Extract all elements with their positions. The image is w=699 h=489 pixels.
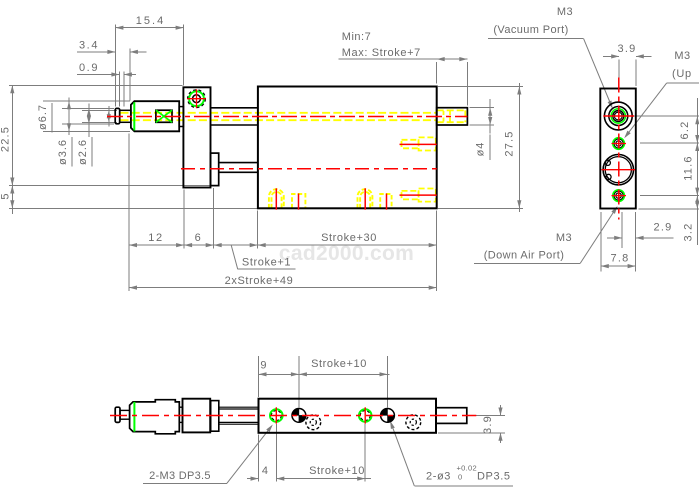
bottom port A inner xyxy=(272,192,282,208)
Stroke+1 leader xyxy=(231,245,238,269)
dim 27.5 line xyxy=(518,83,520,212)
stub hole hidden end xyxy=(464,110,466,122)
bv 3.9 ext top xyxy=(471,415,505,417)
bottom port C outline xyxy=(358,189,373,208)
plate hole crosshair h xyxy=(187,98,206,100)
bv guide rod line 4 xyxy=(219,423,259,425)
dim 6.7 ext top xyxy=(43,100,130,102)
bv 3.9 ext bottom xyxy=(438,432,505,434)
svg-text:2.9: 2.9 xyxy=(654,222,673,234)
svg-text:0.9: 0.9 xyxy=(79,62,99,74)
plate hole green circle xyxy=(189,91,204,106)
bv ext hole2 xyxy=(364,424,366,482)
svg-text:4: 4 xyxy=(262,465,269,477)
stub hole hidden bottom xyxy=(437,121,466,123)
chain ext y143 xyxy=(640,142,699,144)
chain ext x437 xyxy=(436,211,438,292)
dim 6.7 ext bottom xyxy=(43,130,130,132)
svg-text:(Up: (Up xyxy=(672,68,692,80)
right view body xyxy=(600,89,636,209)
chain ext x214 xyxy=(213,188,215,249)
svg-text:2-ø3: 2-ø3 xyxy=(426,471,451,483)
svg-text:Stroke+10: Stroke+10 xyxy=(309,465,365,477)
bv rod tip shaft xyxy=(120,410,130,419)
bv mounting plate xyxy=(183,399,211,433)
up port crosshair h xyxy=(612,143,627,145)
svg-text:2-M3 DP3.5: 2-M3 DP3.5 xyxy=(149,470,211,482)
datum hole 2 NW fill xyxy=(381,409,388,416)
down port inner circle xyxy=(616,193,621,198)
plate hole inner circle xyxy=(193,95,201,103)
dim Min/Max ext left xyxy=(436,62,438,84)
right view vertical centerline xyxy=(618,78,620,220)
dim Min/Max ext right xyxy=(466,62,468,106)
knob neck spacer xyxy=(179,107,183,127)
cylinder body xyxy=(258,87,437,209)
up port green circle xyxy=(613,138,625,150)
main bore crosshair h xyxy=(602,169,636,171)
bv ext datum2 xyxy=(387,356,389,408)
svg-text:3.9: 3.9 xyxy=(482,415,494,434)
main bore circle xyxy=(603,155,633,185)
piston rod lower line xyxy=(211,124,258,126)
svg-text:0: 0 xyxy=(458,473,462,482)
bv M3 hole 2 green circle xyxy=(359,409,372,422)
bv rod tip cap xyxy=(115,407,120,422)
svg-text:Stroke+1: Stroke+1 xyxy=(242,257,291,269)
svg-text:Min:7: Min:7 xyxy=(342,31,371,43)
dim 4 ext top xyxy=(470,107,495,109)
chain ext y196 xyxy=(640,195,699,197)
svg-text:M3: M3 xyxy=(557,6,573,18)
lower guide rod lower line xyxy=(219,171,258,173)
vacuum leader underline xyxy=(488,38,584,40)
bv hole 1 crosshair v xyxy=(275,407,277,423)
bv 3.9 line top xyxy=(500,405,502,416)
dim 3.6 line xyxy=(88,104,90,138)
up leader underline xyxy=(667,82,699,84)
dim 3.4 line right xyxy=(130,51,146,53)
plate hole thread circle xyxy=(188,90,206,108)
vacuum pad knob body xyxy=(131,101,179,131)
chain ext y116 xyxy=(633,115,699,117)
stub hole hidden top xyxy=(437,109,466,111)
dim 15.4 line xyxy=(115,27,183,29)
svg-text:11.6: 11.6 xyxy=(683,155,695,180)
stub hole thread a xyxy=(443,111,445,122)
port A red line xyxy=(275,188,277,209)
bv knob green edge line xyxy=(133,402,135,432)
svg-text:ø4: ø4 xyxy=(475,142,487,157)
down air port counterbore xyxy=(419,189,436,202)
port B red line xyxy=(298,194,300,210)
dim 15.4 ext line right xyxy=(183,25,185,86)
up leader diagonal xyxy=(626,83,667,137)
up port red centerline xyxy=(400,143,437,145)
dim 2.6 text underline xyxy=(91,137,93,167)
2-dia3 underline xyxy=(414,485,513,487)
svg-text:9: 9 xyxy=(260,360,267,372)
hidden hole 1 inner xyxy=(310,419,316,425)
rod stub right xyxy=(437,108,468,125)
bv 3.9 line bottom xyxy=(500,433,502,443)
dim 2.9 line right xyxy=(636,237,674,239)
bv knob body xyxy=(130,400,180,434)
dim 2.6 ext top xyxy=(82,109,117,111)
dim 2.6 ext bottom xyxy=(82,121,117,123)
dim 7.8 ext left xyxy=(600,212,602,271)
chain ext y209 xyxy=(639,208,699,210)
bv ext x258 bottom xyxy=(258,435,260,482)
hidden hole 2 outer xyxy=(406,415,421,430)
up port inner circle xyxy=(616,141,621,146)
port C red line xyxy=(364,188,366,209)
bore keyway b xyxy=(606,174,611,179)
dim 3.6 ext bottom xyxy=(62,123,114,125)
svg-text:(Down Air Port): (Down Air Port) xyxy=(484,250,565,262)
up port circle xyxy=(614,139,623,148)
bv guide rod line 1 xyxy=(219,406,259,408)
datum hole 1 circle xyxy=(292,409,306,423)
svg-text:2xStroke+49: 2xStroke+49 xyxy=(225,275,294,287)
bv ext x258 top xyxy=(258,356,260,397)
plate hole crosshair v xyxy=(196,89,198,108)
dim 2.9 ext left xyxy=(621,212,623,248)
dim 4 ext bottom xyxy=(470,124,495,126)
up air port counterbore xyxy=(419,137,436,150)
bv ext datum1 xyxy=(298,356,300,408)
dim 3.4 ext line xyxy=(129,49,131,101)
dim 3.9 line right xyxy=(636,55,652,57)
dim 0.9 ext line b xyxy=(123,72,125,107)
dim 3.9 line left xyxy=(603,55,619,57)
svg-text:DP3.5: DP3.5 xyxy=(477,471,511,483)
bottom port D outline xyxy=(380,194,391,208)
front mounting plate xyxy=(183,87,210,187)
dim Min/Max line xyxy=(437,58,468,60)
dim 3.9 ext right xyxy=(635,59,637,86)
svg-text:Max: Stroke+7: Max: Stroke+7 xyxy=(342,47,421,59)
Stroke+1 underline xyxy=(238,268,296,270)
dim 7.8 ext right xyxy=(635,212,637,271)
plate lower boss xyxy=(211,153,219,186)
hidden hole 2 inner xyxy=(410,419,416,425)
bore keyway a xyxy=(605,160,610,165)
port D red line xyxy=(386,194,388,210)
vacuum port crosshair h xyxy=(603,115,634,117)
vacuum port thread circle xyxy=(613,111,624,122)
dim 0.9 line left xyxy=(77,74,119,76)
svg-text:12: 12 xyxy=(148,232,163,244)
dim 0.9 ext line a xyxy=(118,72,120,107)
bv rod stub xyxy=(436,408,467,424)
svg-text:Stroke+10: Stroke+10 xyxy=(311,358,367,370)
orifice X diagonal 1 xyxy=(156,110,172,122)
main centerline side view xyxy=(107,116,467,118)
bv dim line bottom a xyxy=(247,478,259,480)
vacuum port counterbore circle xyxy=(609,107,628,126)
bv knob neck xyxy=(179,407,182,422)
chain ext x129 xyxy=(128,134,130,292)
svg-text:22.5: 22.5 xyxy=(0,126,12,152)
svg-text:ø3.6: ø3.6 xyxy=(57,139,69,165)
2-M3 leader xyxy=(227,426,272,483)
bv centerline xyxy=(110,415,476,417)
bv ext hole1 xyxy=(275,424,277,482)
vacuum port green circle xyxy=(611,109,625,123)
bv dim line top xyxy=(259,373,390,375)
orifice box xyxy=(156,110,172,122)
dim 2xStroke+49 line xyxy=(129,287,437,289)
bottom port A outline xyxy=(269,189,284,208)
rod tip cap xyxy=(115,108,120,123)
chain ext x258 xyxy=(257,211,259,249)
bv hole 2 crosshair v xyxy=(364,407,366,423)
dim 5 bottom ext line xyxy=(9,207,258,209)
dim 3.9 ext left xyxy=(618,59,620,86)
dim 22.5/5 mid ext line xyxy=(9,185,219,187)
svg-text:ø2.6: ø2.6 xyxy=(77,139,89,165)
svg-text:ø6.7: ø6.7 xyxy=(37,104,49,130)
svg-text:3.4: 3.4 xyxy=(79,40,99,52)
down port circle xyxy=(614,191,623,200)
svg-text:6.2: 6.2 xyxy=(679,121,691,140)
hidden bore line top xyxy=(121,112,437,114)
rod tip shaft xyxy=(120,110,131,122)
svg-text:5: 5 xyxy=(0,192,12,199)
vacuum leader diagonal xyxy=(584,39,612,106)
dim 15.4 ext line left xyxy=(114,25,116,107)
bottom port C inner xyxy=(360,192,370,208)
2-M3 underline xyxy=(143,482,227,484)
bv guide rod line 3 xyxy=(219,421,259,423)
vacuum port outer circle xyxy=(604,102,632,130)
svg-text:27.5: 27.5 xyxy=(504,130,516,156)
dim 3.6 text underline xyxy=(71,137,73,167)
datum hole 1 NW fill xyxy=(292,409,299,416)
dim 6.7 text underline xyxy=(51,103,53,133)
svg-text:6: 6 xyxy=(195,232,203,244)
hidden bore line bottom xyxy=(121,119,437,121)
bv plate boss xyxy=(211,401,219,432)
svg-text:(Vacuum Port): (Vacuum Port) xyxy=(493,24,568,36)
svg-text:15.4: 15.4 xyxy=(136,15,165,27)
dim 22.5/5 line xyxy=(11,85,13,214)
knob green edge line xyxy=(133,102,135,130)
down leader diagonal xyxy=(580,208,616,264)
down air port pilot hole xyxy=(402,191,419,200)
hidden hole 1 outer xyxy=(306,415,321,430)
datum hole 2 SE fill xyxy=(388,415,395,422)
dim 6.7 line xyxy=(68,98,70,136)
dim 7.8 line xyxy=(601,265,636,267)
vacuum port hole circle xyxy=(614,112,622,120)
down port red centerline xyxy=(400,194,437,196)
dim 27.5 ext top xyxy=(438,86,523,88)
dim 2.6 line xyxy=(108,106,110,127)
bv M3 hole 1 green circle xyxy=(270,409,283,422)
up air port pilot hole xyxy=(402,140,419,149)
svg-text:Stroke+30: Stroke+30 xyxy=(321,232,377,244)
dim 3.6 ext top xyxy=(62,107,114,109)
chain ext x184 xyxy=(183,190,185,249)
dim chain line y245 xyxy=(129,244,437,246)
svg-text:7.8: 7.8 xyxy=(611,253,630,265)
main bore inner circle xyxy=(605,157,631,183)
dim 3.4 line left xyxy=(77,51,115,53)
bottom port B outline xyxy=(292,194,305,208)
datum hole 1 SE fill xyxy=(299,415,306,422)
svg-text:M3: M3 xyxy=(556,232,572,244)
bv M3 hole 2 thread circle xyxy=(360,410,370,420)
2-dia3 leader xyxy=(391,423,415,486)
svg-text:M3: M3 xyxy=(674,50,690,62)
down leader underline xyxy=(474,263,580,265)
svg-text:3.2: 3.2 xyxy=(683,223,695,242)
svg-text:3.9: 3.9 xyxy=(618,43,637,55)
dim chain line right xyxy=(696,98,698,245)
dim 4 line xyxy=(489,99,491,134)
datum hole 2 circle xyxy=(381,409,395,423)
bv guide rod line 2 xyxy=(219,408,259,410)
down port green circle xyxy=(613,190,625,202)
svg-text:+0.02: +0.02 xyxy=(457,464,477,473)
down port crosshair h xyxy=(612,195,627,197)
piston rod upper line xyxy=(211,107,258,109)
bv M3 hole 1 thread circle xyxy=(271,410,281,420)
dim 0.9 line right xyxy=(124,74,136,76)
Max leader underline xyxy=(339,58,437,60)
bv cylinder body xyxy=(259,399,437,433)
lower centerline side view xyxy=(181,168,437,170)
dim 2.9 line left xyxy=(607,237,622,239)
stub hole thread b xyxy=(449,111,451,122)
dim 27.5 ext bottom xyxy=(438,207,523,209)
dim 4 text underline xyxy=(489,135,491,161)
orifice X diagonal 2 xyxy=(156,110,172,122)
lower guide rod upper line xyxy=(219,162,258,164)
bv dim line bottom b xyxy=(276,478,371,480)
dim 22.5 top ext line xyxy=(9,84,183,86)
